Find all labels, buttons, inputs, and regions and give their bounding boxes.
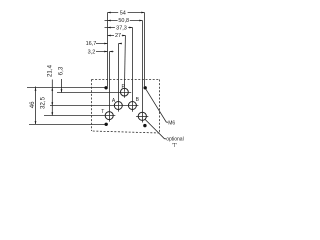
svg-text:optional: optional — [166, 137, 184, 143]
svg-text:M6: M6 — [168, 121, 175, 127]
svg-text:37,3: 37,3 — [116, 25, 127, 31]
svg-text:21,4: 21,4 — [46, 64, 53, 77]
svg-text:'T': 'T' — [172, 143, 177, 149]
svg-text:27: 27 — [115, 33, 121, 39]
svg-text:50,8: 50,8 — [118, 18, 129, 24]
svg-text:46: 46 — [29, 101, 36, 108]
svg-text:16,7: 16,7 — [86, 41, 97, 47]
svg-text:32,5: 32,5 — [39, 96, 46, 109]
svg-text:54: 54 — [120, 10, 126, 16]
svg-text:3,2: 3,2 — [88, 50, 96, 56]
svg-text:T: T — [101, 109, 104, 115]
svg-text:6,3: 6,3 — [58, 66, 65, 75]
